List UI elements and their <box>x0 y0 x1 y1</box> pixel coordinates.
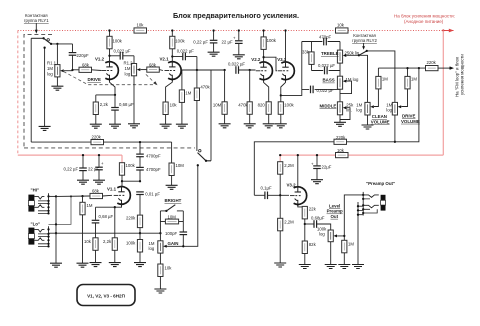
svg-text:2,2M: 2,2M <box>284 220 294 225</box>
ground under 0,22uF <box>208 52 220 56</box>
jack Preamp Out tip spring <box>363 195 379 198</box>
svg-text:0,68µF: 0,68µF <box>311 215 325 220</box>
svg-text:820: 820 <box>258 103 266 108</box>
wire red bottom right segment <box>280 154 443 156</box>
svg-text:Блок предварительного усиления: Блок предварительного усиления. <box>173 11 299 20</box>
jack Preamp Out body <box>381 195 386 201</box>
wire middle bottom to ground <box>339 115 341 123</box>
resistor 220k to FM loop <box>426 66 439 71</box>
potentiometer Level 100k log <box>328 230 337 242</box>
svg-text:4700pF: 4700pF <box>146 167 161 172</box>
svg-text:10M: 10M <box>213 103 222 108</box>
wire red arrow to power amp <box>443 30 453 32</box>
jack Lo body <box>28 228 34 234</box>
tube V2.1 <box>165 62 182 82</box>
wire drive wiper up to 1M mix <box>401 89 407 107</box>
wire level pot bottom <box>330 242 332 265</box>
wire out jack ground bus <box>357 202 359 265</box>
resistor 100k plate V2.2 <box>263 31 265 37</box>
ground under out jacks <box>352 265 364 269</box>
ground under 820 <box>263 124 275 128</box>
capacitor 0,022uF coupling V2.1-V2.2 <box>171 55 173 57</box>
label box V1,V2,V3 - 6N2P <box>77 285 135 306</box>
wire Lo to attenuator node <box>49 232 141 234</box>
resistor 220k (gain column) <box>137 215 142 228</box>
svg-text:Out: Out <box>331 214 339 219</box>
capacitor 470pF <box>324 38 327 46</box>
svg-text:log: log <box>386 108 392 113</box>
ground under 1M V1.1 <box>77 263 89 267</box>
ground under MIDDLE <box>334 122 346 126</box>
svg-text:0,22 µF: 0,22 µF <box>64 166 79 171</box>
ground under R1.2 <box>128 124 140 128</box>
wire red left vertical <box>17 31 19 156</box>
wire bass cap row <box>312 70 341 72</box>
wire bass-middle <box>339 89 341 102</box>
svg-text:100k: 100k <box>126 163 136 168</box>
ground under 10M <box>219 124 231 128</box>
wire middle wiper hook <box>340 108 350 120</box>
resistor 82k (V3.2 cathode) <box>302 241 307 254</box>
ground under level pot <box>325 265 337 269</box>
wire mid cap row <box>302 88 340 90</box>
wire R1.1 bottom <box>56 77 58 86</box>
jack Lo ring spring <box>34 238 44 241</box>
capacitor 4700pF upper <box>139 142 141 154</box>
wire RLY2 to drive volume <box>367 51 395 103</box>
wire pointer RLY2 <box>363 43 365 47</box>
svg-text:100k: 100k <box>284 103 294 108</box>
capacitor 0,68uF (V1.1 cathode) <box>95 207 97 220</box>
cathode network V2.1: 10k <box>166 80 173 102</box>
wire bass wiper hook <box>340 81 352 94</box>
jack Preamp Out contact lines <box>363 199 370 209</box>
svg-text:10k: 10k <box>337 148 345 153</box>
svg-text:10k: 10k <box>165 266 173 271</box>
svg-text:1M: 1M <box>87 203 93 208</box>
wire red drop to R 100k of V1.1 <box>121 155 123 163</box>
resistor 100k plate V1.2 <box>109 31 111 37</box>
svg-text:100k: 100k <box>126 240 136 245</box>
capacitor 0,22uF lower decoupling <box>82 155 84 167</box>
svg-text:2,2k: 2,2k <box>100 102 109 107</box>
potentiometer TREBLE 250k lin <box>339 42 341 51</box>
svg-text:0,022 µF: 0,022 µF <box>318 63 335 68</box>
wire V3.1 cathode to tone stack <box>281 42 302 96</box>
ground under 2,2k <box>109 263 121 267</box>
svg-text:TREBLE: TREBLE <box>321 51 339 56</box>
jack Preamp Out bus <box>362 192 364 216</box>
ground under jacks <box>50 263 62 267</box>
resistor 33k slope <box>311 42 313 52</box>
wire V2.2 plate to V3.1 grid <box>262 56 264 58</box>
svg-text:1M: 1M <box>125 66 131 71</box>
node B+ top rail (red dotted) <box>18 30 448 32</box>
svg-text:10M: 10M <box>176 163 185 168</box>
resistor 10k rail (left) <box>108 29 110 31</box>
capacitor 0,022uF mid <box>309 86 314 94</box>
gang dashed link R1.1-R1.2 <box>64 72 157 85</box>
wire coupling down to drive bus <box>196 57 198 71</box>
svg-text:VOLUME: VOLUME <box>371 119 390 124</box>
tube V1.2 <box>102 62 119 82</box>
wire Hi tip to grid <box>49 195 57 197</box>
switch BRIGHT <box>160 210 166 212</box>
svg-text:22 µF: 22 µF <box>88 166 99 171</box>
svg-text:220pF: 220pF <box>77 53 90 58</box>
svg-text:1M: 1M <box>348 242 354 247</box>
svg-text:10k: 10k <box>84 239 92 244</box>
capacitor 22uF lower decoupling <box>98 155 100 167</box>
svg-text:4700pF: 4700pF <box>146 154 161 159</box>
wire grid V1.1 <box>56 195 90 197</box>
ground under CLEAN pot <box>362 125 374 129</box>
wire gain pot bottom <box>159 253 161 264</box>
resistor 68k grid stopper V1.1 <box>90 193 103 198</box>
wire R1.2 wiper to 68k <box>141 69 147 71</box>
resistor 68k (V1.2 grid) <box>73 69 80 71</box>
wire level wiper to 1M <box>337 236 344 240</box>
wire tone stack top <box>302 41 340 43</box>
capacitor 0,022uF bass <box>323 67 328 75</box>
svg-text:22µF: 22µF <box>322 164 332 169</box>
svg-text:22 µF: 22 µF <box>222 40 233 45</box>
ground under 470k <box>244 124 256 128</box>
ground under gain 10k <box>154 289 166 293</box>
resistor 1M grid leak <box>181 70 183 90</box>
svg-text:68k: 68k <box>92 188 100 193</box>
svg-text:BRIGHT: BRIGHT <box>165 198 182 203</box>
wire ground bus of jacks <box>55 196 57 263</box>
resistor 2,2k (V1.1 cathode) <box>114 207 116 238</box>
svg-text:log: log <box>125 72 131 77</box>
resistor 220k clean channel <box>91 140 104 145</box>
wire dashed drive line bottom <box>24 147 195 149</box>
svg-text:V1.1: V1.1 <box>107 186 117 191</box>
ground under 22uF <box>93 180 105 184</box>
wire NC contact to ground <box>44 48 46 127</box>
svg-text:Level: Level <box>329 203 340 208</box>
svg-text:0,68 µF: 0,68 µF <box>119 102 134 107</box>
svg-text:0,22 µF: 0,22 µF <box>193 40 208 45</box>
svg-text:220k: 220k <box>92 135 102 140</box>
svg-text:0,1µF: 0,1µF <box>261 186 272 191</box>
svg-text:V1.2: V1.2 <box>95 57 105 62</box>
ground under 0,68uF <box>109 124 121 128</box>
ground under 100k <box>275 124 287 128</box>
wire red bottom left segment <box>18 154 122 156</box>
svg-text:2,2M: 2,2M <box>284 163 294 168</box>
svg-text:0,022 µF: 0,022 µF <box>228 61 245 66</box>
resistor 10M bright <box>160 221 165 223</box>
wire switch to gain pot wiper <box>165 165 198 246</box>
wire red right vertical <box>442 31 444 156</box>
svg-text:220k: 220k <box>126 216 136 221</box>
svg-text:"Hi": "Hi" <box>31 188 40 193</box>
capacitor 0,68uF (V1.2 cathode) <box>114 95 116 107</box>
switch RLY2 <box>359 51 367 55</box>
svg-text:0,022 µF: 0,022 µF <box>114 48 131 53</box>
wire R1.2 bottom to ground <box>133 76 135 124</box>
capacitor 220pF <box>72 44 74 52</box>
svg-text:группа RLY2: группа RLY2 <box>352 38 377 43</box>
resistor 470k (V2.2 grid) <box>249 69 251 71</box>
wire drive pot bottom to loop wire <box>394 115 396 142</box>
cathode V3.2 to 22k <box>298 205 305 207</box>
capacitor 0,022uF drive coupling <box>236 66 239 74</box>
resistor 220k (loop to V3.2) <box>334 139 347 144</box>
wire switch to grid node <box>51 43 72 45</box>
svg-text:Preamp: Preamp <box>327 209 343 214</box>
resistor 10k top rail (right) <box>336 28 349 33</box>
resistor 1M mix (clean) <box>376 76 381 89</box>
wire clean channel y142 <box>31 141 91 143</box>
svg-text:2,2k: 2,2k <box>103 239 112 244</box>
svg-text:DRIVE: DRIVE <box>88 77 101 82</box>
wire FM loop bus <box>378 67 425 69</box>
svg-text:0,022 µF: 0,022 µF <box>317 88 334 93</box>
wire level wiper to out jack <box>344 195 363 236</box>
bright rails <box>159 211 161 241</box>
ground under 10k <box>160 124 172 128</box>
potentiometer BASS 1M log <box>337 76 346 89</box>
resistor 2,2M lower (V3.2 bias) <box>279 195 281 218</box>
resistor 10k (V2.1 cathode) <box>163 102 168 115</box>
potentiometer R1.2 1M log <box>133 56 135 64</box>
capacitor 0,68uF output <box>305 223 314 225</box>
svg-text:V2.2: V2.2 <box>251 57 261 62</box>
capacitor 22uF rail decoupling <box>238 31 240 41</box>
svg-text:68k: 68k <box>82 63 90 68</box>
svg-text:470pF: 470pF <box>319 35 332 40</box>
capacitor 0,22uF rail decoupling <box>213 31 215 40</box>
wire pointer RLY1 <box>35 24 37 31</box>
switch drive channel select <box>210 133 212 161</box>
jack Hi ring spring <box>34 205 44 208</box>
wire clean feed down <box>359 55 368 102</box>
wire drive bus y70 <box>182 69 225 71</box>
ground under 0,22uF <box>77 180 89 184</box>
svg-text:GAIN: GAIN <box>168 241 179 246</box>
tube V2.2 <box>256 62 273 82</box>
capacitor 4700pF lower <box>136 167 144 170</box>
svg-text:log: log <box>319 232 325 237</box>
svg-text:1M: 1M <box>411 77 417 82</box>
wire V3.1 plate to rail <box>285 31 287 63</box>
svg-text:68k: 68k <box>149 62 157 67</box>
ground under 22uF <box>233 55 245 59</box>
svg-text:группа RLY1: группа RLY1 <box>24 18 49 23</box>
svg-text:0,01 µF: 0,01 µF <box>145 192 160 197</box>
svg-text:220k: 220k <box>336 135 346 140</box>
wire treble-bass <box>339 63 341 76</box>
resistor 10k (V1.1 cathode) <box>93 238 98 251</box>
svg-text:На блок усиления мощности:: На блок усиления мощности: <box>394 14 455 19</box>
ground under clean 10M <box>166 185 178 189</box>
switch RLY1 <box>31 37 43 39</box>
svg-text:BASS: BASS <box>323 78 335 83</box>
jack Hi body <box>28 195 34 201</box>
svg-text:V3.2: V3.2 <box>287 182 297 187</box>
resistor 100k plate V2.1 <box>171 31 173 37</box>
enclosure dashed group RLY1 (left) <box>24 34 52 147</box>
wire R1.1 wiper to node <box>64 70 73 72</box>
ground under 82k <box>299 265 311 269</box>
resistor 2,2k <box>93 102 98 115</box>
svg-text:0,022 µF: 0,022 µF <box>177 49 194 54</box>
svg-text:470k: 470k <box>238 103 248 108</box>
svg-text:10k: 10k <box>170 103 178 108</box>
resistor 1M grid leak V1.1 <box>82 196 84 202</box>
wire clean wiper up to 1M mix <box>374 89 379 107</box>
jack Lo bus <box>48 226 50 247</box>
svg-text:100pF: 100pF <box>165 231 178 236</box>
jack Hi bus <box>48 193 50 214</box>
ground under 22uF V3.2 <box>311 180 323 184</box>
svg-text:100k: 100k <box>267 38 277 43</box>
wire plate junction to 4700pF column <box>121 180 123 182</box>
capacitor 0,1uF coupling to V3.2 <box>254 194 265 196</box>
resistor 10k (gain bottom) <box>158 264 163 277</box>
ground under 100k column <box>134 263 146 267</box>
jack Lo contact lines <box>38 234 49 247</box>
jack Preamp Out ring spring <box>363 205 379 208</box>
svg-text:DRIVE: DRIVE <box>402 114 415 119</box>
capacitor 22uF (V3.2 supply) <box>316 155 318 165</box>
svg-text:VOLUME: VOLUME <box>401 119 420 124</box>
jack Lo tip spring <box>34 229 44 232</box>
tube V3.2 <box>290 187 307 207</box>
cathode network V2.2: 820 <box>264 80 269 102</box>
svg-text:V1, V2, V3 - 6Н2П: V1, V2, V3 - 6Н2П <box>87 294 125 299</box>
svg-text:MIDDLE: MIDDLE <box>320 103 337 108</box>
wire out jack sleeve bracket <box>363 209 377 213</box>
ground under 2,2k <box>90 124 102 128</box>
wire clean pot bottom to ground <box>367 115 369 125</box>
potentiometer MIDDLE 25k lin <box>337 102 346 115</box>
svg-text:22k: 22k <box>309 207 317 212</box>
resistor 22k (V3.2 cathode) <box>302 206 307 219</box>
svg-text:R1.1: R1.1 <box>47 61 57 66</box>
wire drive select riser <box>210 70 212 133</box>
wire gain node to bright network <box>140 232 160 234</box>
wire treble wiper to RLY2 <box>346 54 359 56</box>
resistor 10M (drive bus) <box>224 70 226 102</box>
tube V1.1 <box>114 187 131 207</box>
resistor 68k (V2.1 grid) <box>147 67 160 72</box>
wire V3.2 plate to red rail <box>297 155 299 187</box>
svg-text:1M: 1M <box>382 77 388 82</box>
potentiometer GAIN 1M log <box>158 241 167 253</box>
svg-text:1M: 1M <box>47 66 53 71</box>
resistor 10M clean channel <box>171 142 173 163</box>
node FM loop arrow <box>449 67 451 69</box>
resistor 10k on red rail (right) <box>336 153 349 158</box>
ground under 10k V1.1 <box>90 263 102 267</box>
svg-text:log: log <box>149 246 155 251</box>
capacitor 0,022uF coupling V1.2-R1.2 <box>108 55 110 57</box>
ground under RLY1 NC <box>39 126 51 130</box>
tube V3.1 <box>278 62 295 82</box>
svg-text:33k: 33k <box>302 50 310 55</box>
resistor 100k (gain column) <box>139 232 141 234</box>
svg-text:10M: 10M <box>168 214 177 219</box>
svg-text:10k: 10k <box>137 22 145 27</box>
ground under 1M <box>176 124 188 128</box>
svg-text:82k: 82k <box>309 242 317 247</box>
svg-text:log: log <box>356 108 362 113</box>
potentiometer DRIVE VOLUME 1M log <box>392 102 401 115</box>
cathode network V1.1 <box>96 204 122 207</box>
svg-text:10k: 10k <box>337 22 345 27</box>
ground under 2,2M <box>274 263 286 267</box>
potentiometer R1.1 1M log <box>56 44 58 65</box>
wire feedback line y141.8 <box>254 68 419 195</box>
svg-text:1M: 1M <box>185 91 191 96</box>
svg-text:470k: 470k <box>200 85 210 90</box>
svg-text:100k: 100k <box>113 39 123 44</box>
resistor 1M mix (drive) <box>405 76 410 89</box>
svg-text:log: log <box>47 72 53 77</box>
wire Hi ring loop to Lo <box>49 196 72 224</box>
resistor 100k plate V1.1 <box>119 163 124 176</box>
resistor 2,2M upper (V3.2 bias) <box>279 155 281 162</box>
resistor 470k (drive bus to switch) <box>196 70 198 88</box>
ground under R1.1 <box>51 86 63 90</box>
svg-text:100k: 100k <box>175 39 185 44</box>
svg-text:V2.1: V2.1 <box>160 57 170 62</box>
capacitor 0,01uF (V1.1 plate to gain column) <box>136 192 144 195</box>
jack Hi contact lines <box>38 201 49 214</box>
svg-text:220k: 220k <box>427 60 437 65</box>
wire input down from switch corner <box>30 38 32 142</box>
potentiometer CLEAN VOLUME 1M log <box>365 102 374 115</box>
svg-text:R1.2: R1.2 <box>124 61 134 66</box>
capacitor 100pF bright <box>180 232 188 235</box>
svg-text:(Анодное питание): (Анодное питание) <box>404 19 444 24</box>
svg-text:"Lo": "Lo" <box>31 222 41 227</box>
jack Hi tip spring <box>34 196 44 199</box>
cathode network V3.1: 100k <box>281 80 286 102</box>
svg-text:"Preamp Out": "Preamp Out" <box>366 181 395 186</box>
svg-text:усиления мощности: усиления мощности <box>460 54 465 95</box>
svg-text:0,68 µF: 0,68 µF <box>99 214 114 219</box>
cathode network V1.2: 2,2k + 0,68uF <box>110 80 116 95</box>
resistor 1M output <box>342 240 347 253</box>
svg-text:CLEAN: CLEAN <box>372 114 387 119</box>
ground under output 1M <box>338 265 350 269</box>
